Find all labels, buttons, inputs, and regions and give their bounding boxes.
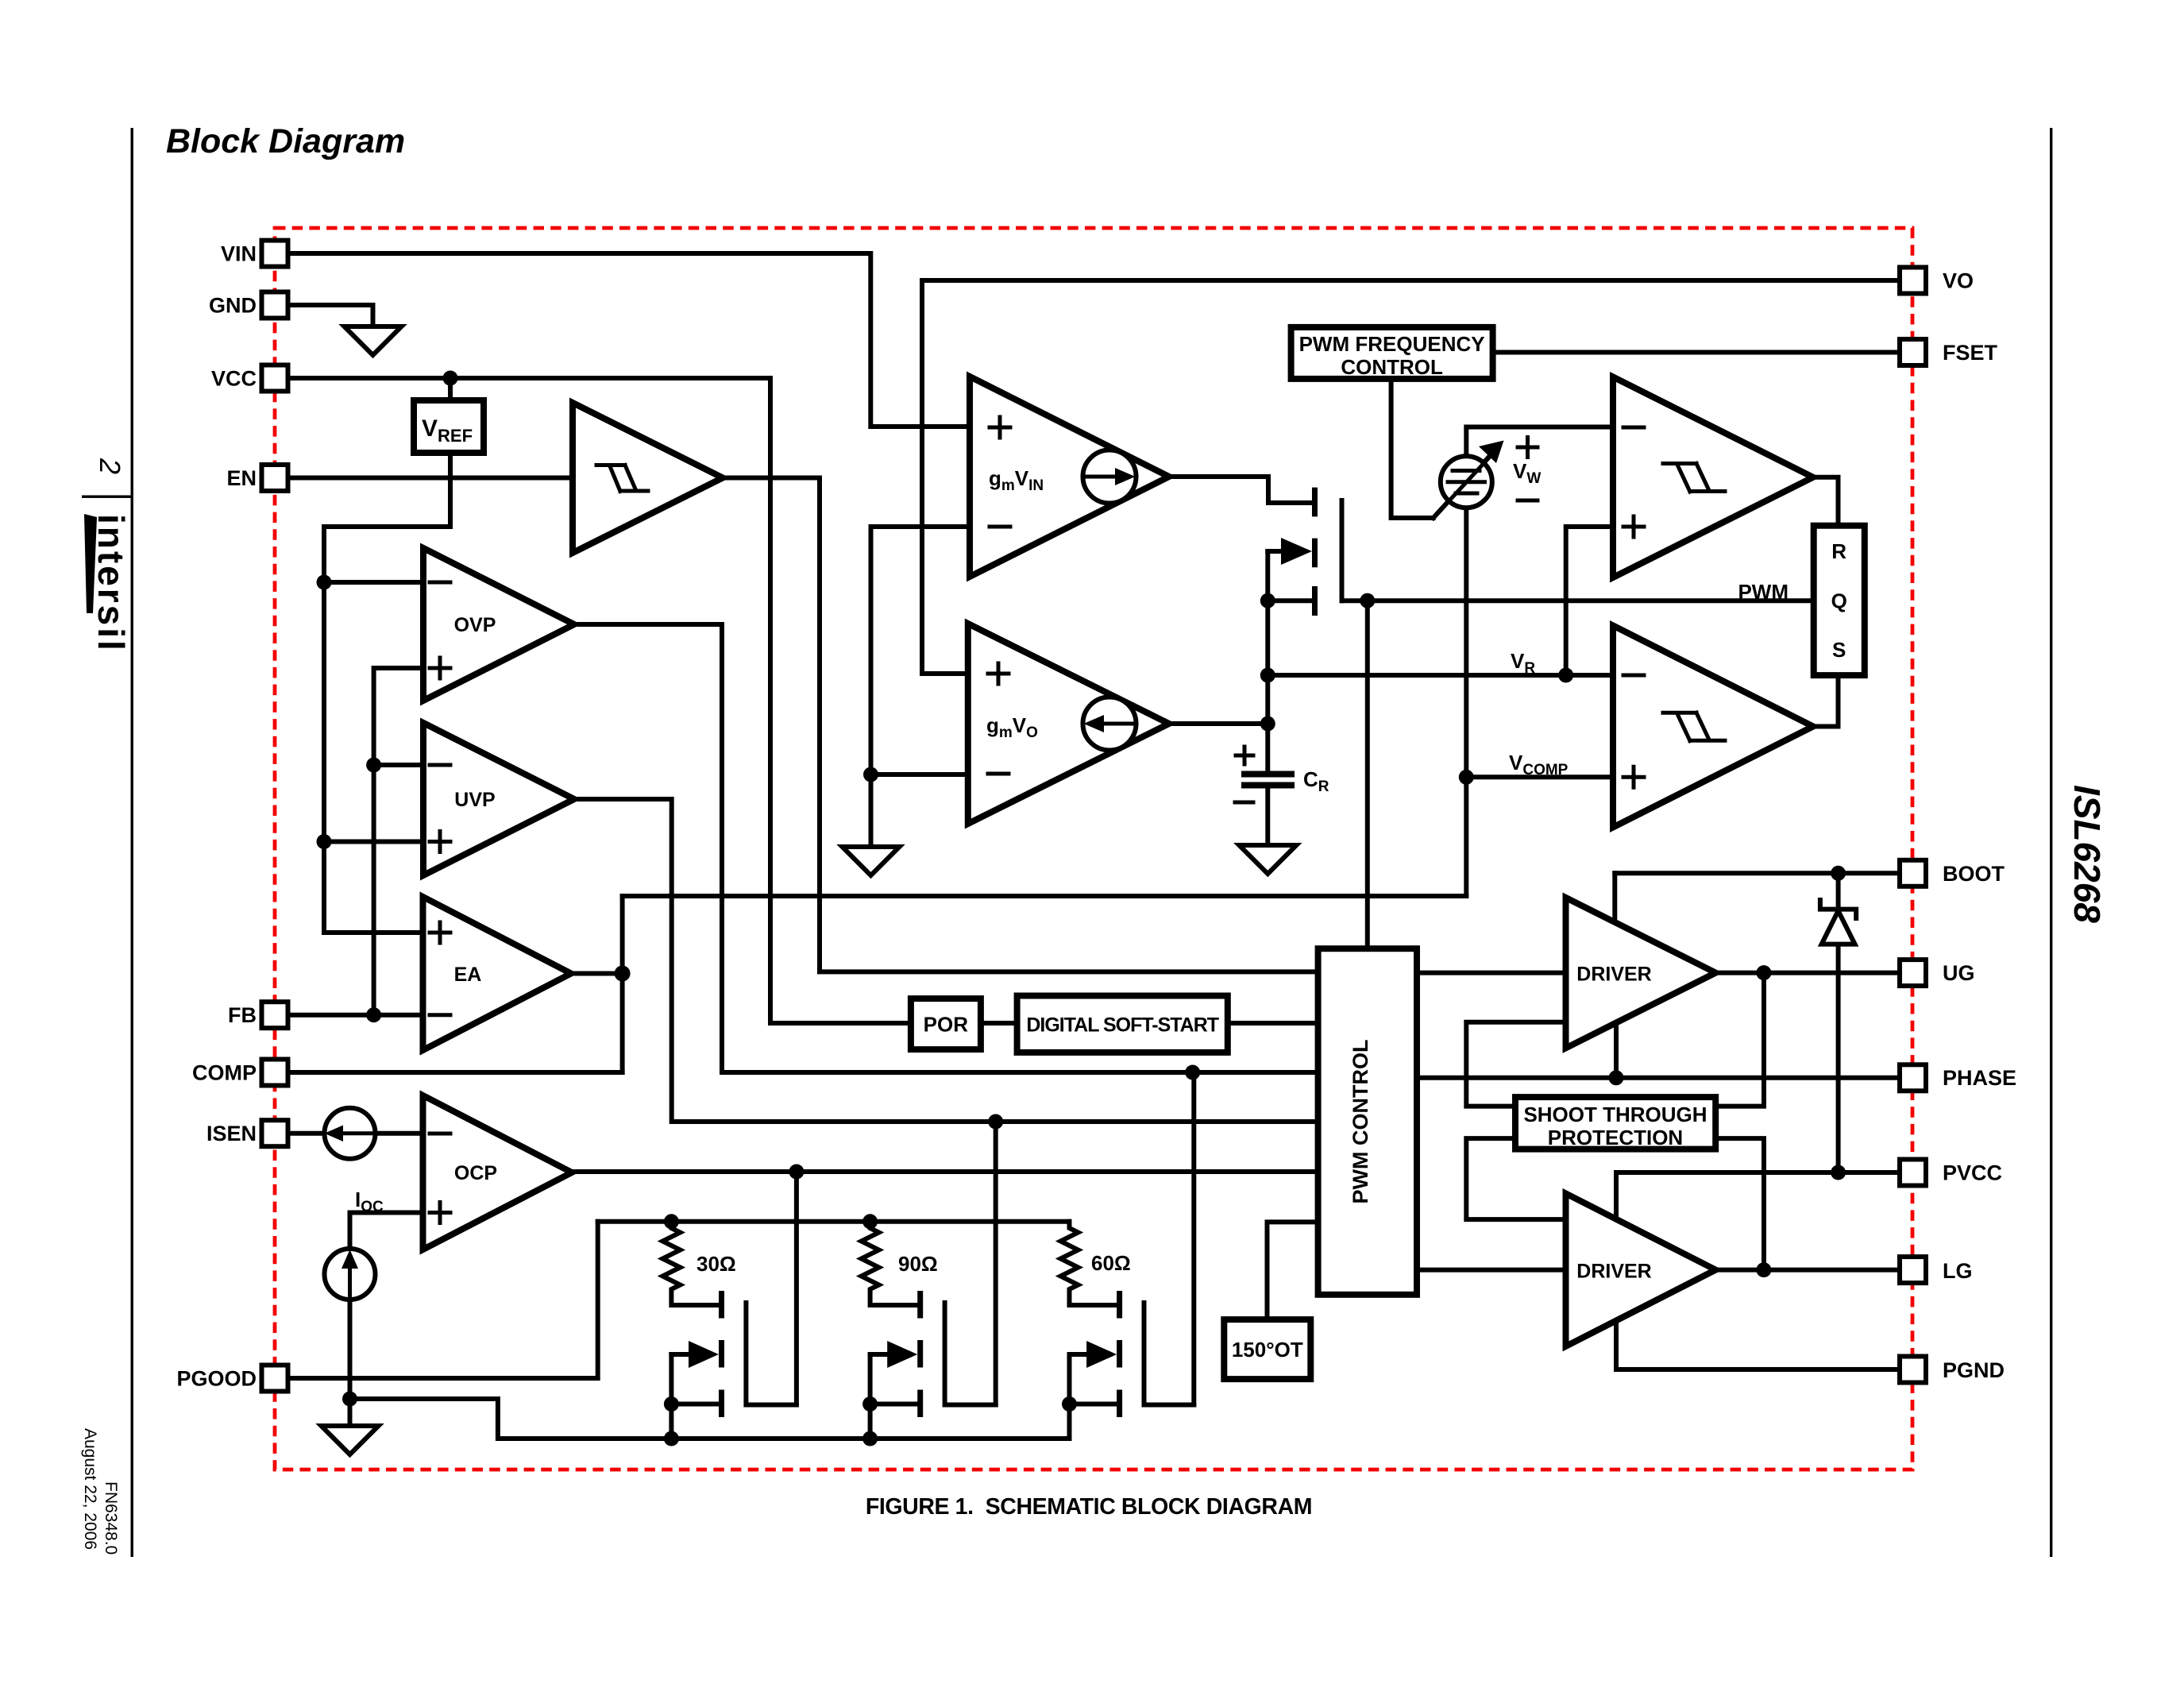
svg-text:60Ω: 60Ω xyxy=(1091,1251,1131,1275)
svg-text:R: R xyxy=(1831,539,1846,563)
svg-text:FN6348.0: FN6348.0 xyxy=(102,1481,120,1555)
svg-text:150°OT: 150°OT xyxy=(1232,1338,1303,1362)
svg-text:POR: POR xyxy=(924,1013,969,1037)
svg-text:ISL6268: ISL6268 xyxy=(2066,785,2108,923)
svg-text:OCP: OCP xyxy=(454,1162,497,1184)
svg-text:GND: GND xyxy=(209,294,257,318)
svg-text:FIGURE 1. SCHEMATIC BLOCK DIA: FIGURE 1. SCHEMATIC BLOCK DIAGRAM xyxy=(866,1494,1312,1520)
svg-text:90Ω: 90Ω xyxy=(898,1252,938,1276)
svg-text:CONTROL: CONTROL xyxy=(1341,355,1443,379)
svg-text:August 22, 2006: August 22, 2006 xyxy=(81,1428,99,1550)
svg-text:UVP: UVP xyxy=(454,789,495,811)
svg-text:FB: FB xyxy=(228,1003,257,1027)
svg-text:VIN: VIN xyxy=(221,242,257,266)
svg-text:EA: EA xyxy=(454,964,482,986)
svg-text:PHASE: PHASE xyxy=(1943,1066,2016,1090)
svg-text:PGND: PGND xyxy=(1943,1358,2005,1382)
svg-text:PWM: PWM xyxy=(1738,580,1788,604)
svg-text:EN: EN xyxy=(226,466,257,490)
svg-text:PGOOD: PGOOD xyxy=(176,1367,257,1391)
svg-text:DRIVER: DRIVER xyxy=(1576,1261,1651,1283)
svg-text:30Ω: 30Ω xyxy=(696,1252,736,1276)
svg-text:Q: Q xyxy=(1831,589,1847,613)
svg-text:SHOOT THROUGH: SHOOT THROUGH xyxy=(1523,1103,1707,1126)
svg-text:S: S xyxy=(1832,638,1846,662)
svg-text:COMP: COMP xyxy=(192,1061,257,1085)
svg-text:BOOT: BOOT xyxy=(1943,862,2005,886)
svg-text:VCC: VCC xyxy=(211,367,257,391)
svg-text:PWM FREQUENCY: PWM FREQUENCY xyxy=(1299,332,1485,356)
svg-text:ISEN: ISEN xyxy=(206,1122,257,1145)
svg-text:DIGITAL SOFT-START: DIGITAL SOFT-START xyxy=(1026,1014,1218,1037)
svg-text:PVCC: PVCC xyxy=(1943,1161,2002,1185)
svg-text:OVP: OVP xyxy=(454,614,496,636)
svg-text:FSET: FSET xyxy=(1943,341,1998,365)
svg-text:PROTECTION: PROTECTION xyxy=(1548,1126,1683,1149)
svg-text:LG: LG xyxy=(1943,1259,1973,1283)
svg-text:2: 2 xyxy=(94,458,126,474)
svg-text:VO: VO xyxy=(1943,269,1974,293)
svg-text:Block Diagram: Block Diagram xyxy=(166,122,405,160)
svg-text:UG: UG xyxy=(1943,961,1975,985)
svg-text:PWM CONTROL: PWM CONTROL xyxy=(1349,1040,1372,1204)
svg-text:intersil: intersil xyxy=(91,514,132,653)
svg-text:DRIVER: DRIVER xyxy=(1576,964,1651,986)
